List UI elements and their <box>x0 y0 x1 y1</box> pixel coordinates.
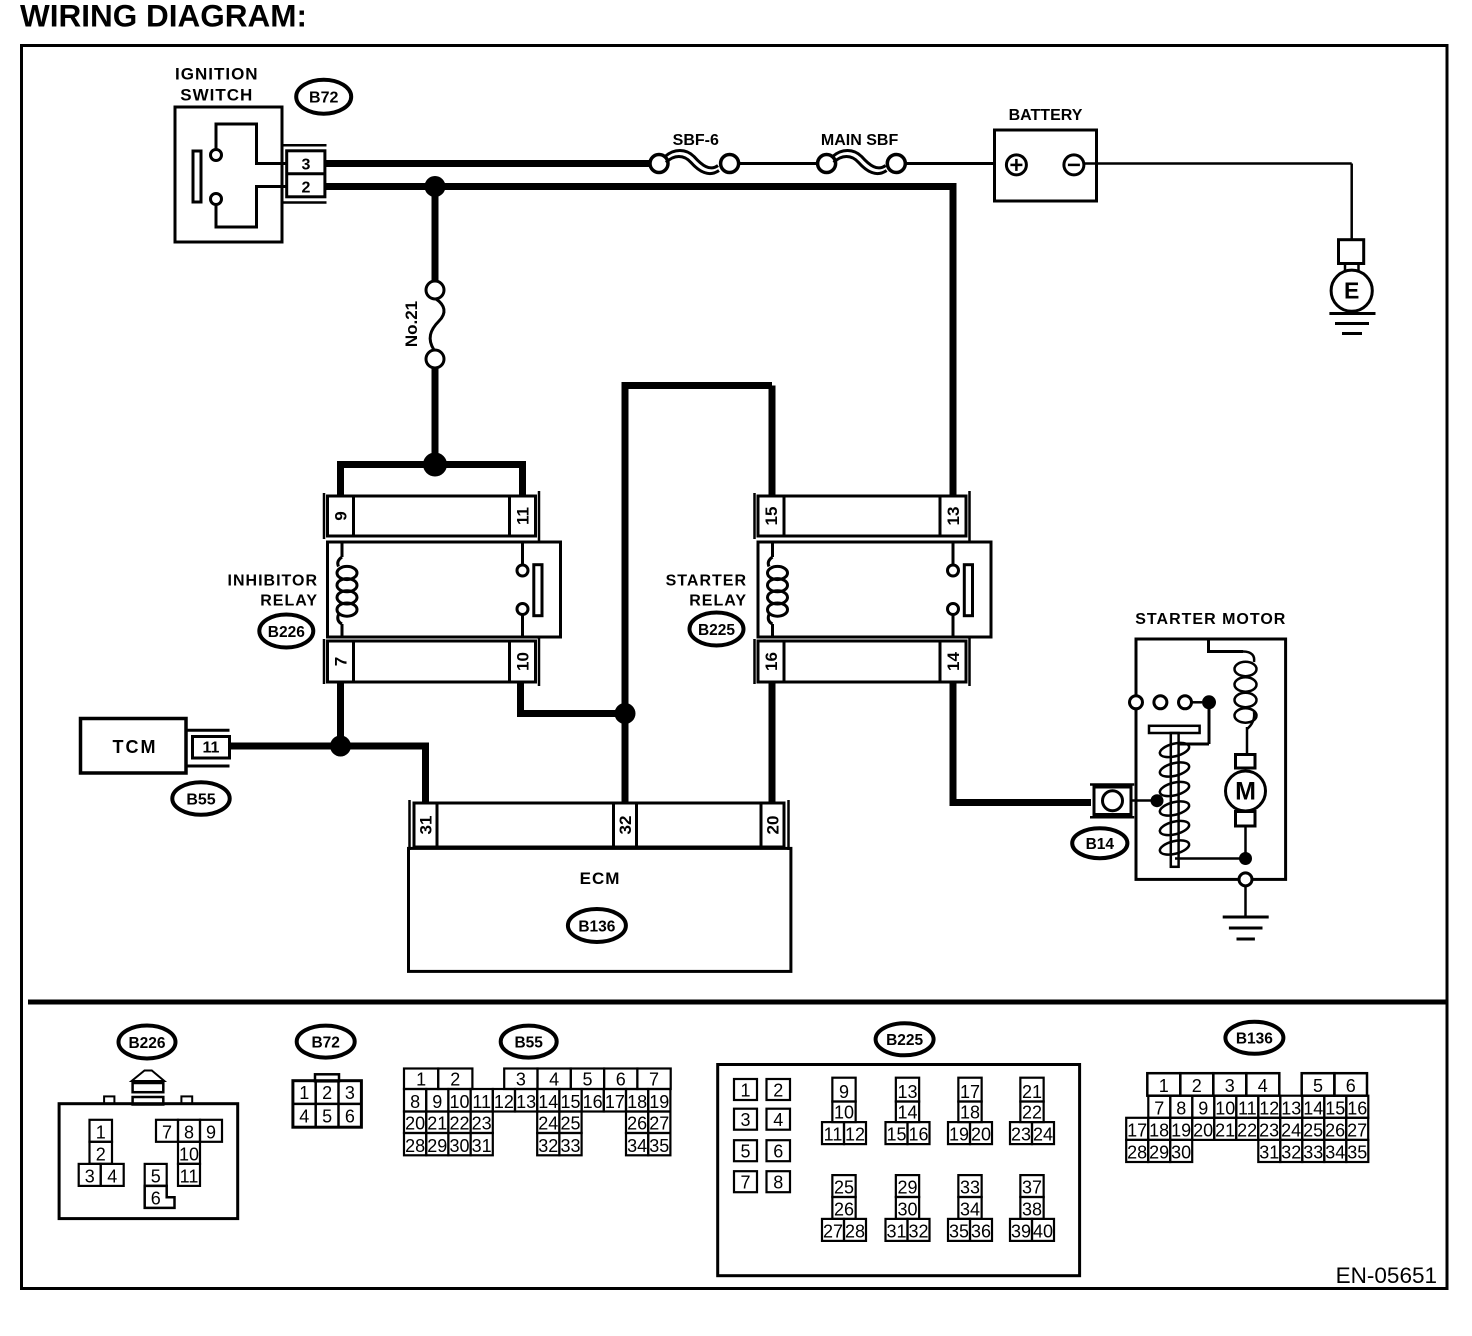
svg-text:26: 26 <box>627 1114 647 1134</box>
svg-text:13: 13 <box>944 507 963 526</box>
svg-text:B72: B72 <box>311 1034 339 1051</box>
svg-text:BATTERY: BATTERY <box>1009 107 1083 124</box>
svg-text:34: 34 <box>627 1136 647 1156</box>
svg-text:RELAY: RELAY <box>689 593 747 610</box>
svg-text:1: 1 <box>96 1122 106 1142</box>
svg-text:B14: B14 <box>1086 836 1115 853</box>
svg-text:23: 23 <box>472 1114 492 1134</box>
svg-text:4: 4 <box>107 1166 117 1186</box>
svg-text:3: 3 <box>1225 1076 1235 1096</box>
svg-text:9: 9 <box>839 1082 849 1102</box>
svg-text:B225: B225 <box>886 1032 923 1049</box>
svg-text:15: 15 <box>1325 1098 1345 1118</box>
svg-text:15: 15 <box>560 1092 580 1112</box>
svg-text:40: 40 <box>1033 1221 1053 1241</box>
svg-text:10: 10 <box>514 652 533 671</box>
svg-text:5: 5 <box>1313 1076 1323 1096</box>
svg-text:SBF-6: SBF-6 <box>673 132 719 149</box>
svg-text:33: 33 <box>960 1178 980 1198</box>
svg-text:21: 21 <box>427 1114 447 1134</box>
svg-text:20: 20 <box>764 816 783 835</box>
svg-text:21: 21 <box>1215 1120 1235 1140</box>
svg-text:20: 20 <box>1193 1120 1213 1140</box>
svg-text:11: 11 <box>472 1092 491 1112</box>
svg-text:3: 3 <box>740 1110 750 1130</box>
svg-text:11: 11 <box>180 1166 199 1186</box>
svg-text:25: 25 <box>560 1114 580 1134</box>
svg-text:10: 10 <box>449 1092 469 1112</box>
svg-text:6: 6 <box>616 1070 626 1090</box>
svg-text:No.21: No.21 <box>402 301 421 347</box>
svg-text:19: 19 <box>1171 1120 1191 1140</box>
svg-text:B55: B55 <box>186 791 215 808</box>
svg-text:STARTER MOTOR: STARTER MOTOR <box>1135 611 1286 628</box>
svg-text:B136: B136 <box>578 918 615 935</box>
svg-text:13: 13 <box>516 1092 536 1112</box>
svg-text:9: 9 <box>206 1122 216 1142</box>
svg-text:20: 20 <box>971 1125 991 1145</box>
svg-text:35: 35 <box>949 1221 969 1241</box>
svg-text:26: 26 <box>1325 1120 1345 1140</box>
svg-text:14: 14 <box>538 1092 558 1112</box>
svg-text:EN-05651: EN-05651 <box>1336 1263 1437 1288</box>
svg-text:13: 13 <box>897 1082 917 1102</box>
svg-text:16: 16 <box>1347 1098 1367 1118</box>
svg-text:B225: B225 <box>698 622 735 639</box>
svg-text:2: 2 <box>450 1070 460 1090</box>
svg-text:28: 28 <box>405 1136 425 1156</box>
svg-text:11: 11 <box>514 507 533 525</box>
svg-text:WIRING DIAGRAM:: WIRING DIAGRAM: <box>20 0 307 34</box>
svg-text:2: 2 <box>1192 1076 1202 1096</box>
svg-text:7: 7 <box>1154 1098 1164 1118</box>
svg-text:21: 21 <box>1022 1082 1042 1102</box>
svg-text:IGNITION: IGNITION <box>175 65 259 84</box>
svg-text:27: 27 <box>649 1114 669 1134</box>
svg-text:2: 2 <box>773 1081 783 1101</box>
svg-text:4: 4 <box>1258 1076 1268 1096</box>
svg-text:1: 1 <box>299 1083 309 1103</box>
svg-text:11: 11 <box>203 740 220 757</box>
svg-text:3: 3 <box>345 1083 355 1103</box>
svg-text:6: 6 <box>151 1188 161 1208</box>
svg-text:32: 32 <box>1281 1143 1301 1163</box>
svg-text:16: 16 <box>908 1125 928 1145</box>
svg-text:5: 5 <box>151 1166 161 1186</box>
svg-text:29: 29 <box>897 1178 917 1198</box>
svg-text:2: 2 <box>302 180 311 197</box>
svg-text:22: 22 <box>449 1114 469 1134</box>
svg-text:8: 8 <box>1176 1098 1186 1118</box>
svg-text:17: 17 <box>1127 1120 1147 1140</box>
svg-text:37: 37 <box>1022 1178 1042 1198</box>
svg-text:2: 2 <box>96 1144 106 1164</box>
svg-text:STARTER: STARTER <box>666 573 747 590</box>
svg-text:15: 15 <box>886 1125 906 1145</box>
svg-text:19: 19 <box>649 1092 669 1112</box>
svg-text:22: 22 <box>1022 1103 1042 1123</box>
svg-text:27: 27 <box>1347 1120 1367 1140</box>
svg-text:E: E <box>1344 278 1359 304</box>
svg-text:2: 2 <box>322 1083 332 1103</box>
svg-text:15: 15 <box>762 507 781 526</box>
svg-text:10: 10 <box>1215 1098 1235 1118</box>
svg-text:1: 1 <box>740 1081 750 1101</box>
svg-text:5: 5 <box>582 1070 592 1090</box>
svg-text:3: 3 <box>85 1166 95 1186</box>
svg-text:33: 33 <box>560 1136 580 1156</box>
svg-text:14: 14 <box>897 1103 917 1123</box>
svg-text:B72: B72 <box>309 90 338 107</box>
svg-text:7: 7 <box>162 1122 172 1142</box>
svg-text:8: 8 <box>410 1092 420 1112</box>
svg-text:B226: B226 <box>128 1035 165 1052</box>
svg-text:14: 14 <box>1303 1098 1323 1118</box>
svg-text:4: 4 <box>549 1070 559 1090</box>
svg-text:35: 35 <box>1347 1143 1367 1163</box>
svg-text:30: 30 <box>449 1136 469 1156</box>
svg-text:8: 8 <box>184 1122 194 1142</box>
svg-text:11: 11 <box>1238 1098 1257 1118</box>
svg-text:29: 29 <box>427 1136 447 1156</box>
svg-text:4: 4 <box>773 1110 783 1130</box>
svg-text:5: 5 <box>322 1107 332 1127</box>
svg-text:31: 31 <box>886 1221 906 1241</box>
svg-text:30: 30 <box>1171 1143 1191 1163</box>
svg-text:14: 14 <box>944 652 963 671</box>
svg-text:18: 18 <box>960 1103 980 1123</box>
svg-text:7: 7 <box>649 1070 659 1090</box>
svg-text:B55: B55 <box>514 1034 543 1051</box>
svg-text:12: 12 <box>494 1092 514 1112</box>
svg-text:10: 10 <box>179 1144 199 1164</box>
svg-text:1: 1 <box>1159 1076 1169 1096</box>
svg-text:29: 29 <box>1149 1143 1169 1163</box>
svg-text:23: 23 <box>1011 1125 1031 1145</box>
svg-text:16: 16 <box>583 1092 603 1112</box>
svg-text:32: 32 <box>616 816 635 835</box>
svg-text:RELAY: RELAY <box>260 593 318 610</box>
svg-text:5: 5 <box>740 1142 750 1162</box>
svg-text:24: 24 <box>1033 1125 1053 1145</box>
svg-text:17: 17 <box>605 1092 625 1112</box>
svg-text:3: 3 <box>302 157 311 174</box>
svg-text:27: 27 <box>823 1221 843 1241</box>
svg-text:28: 28 <box>845 1221 865 1241</box>
svg-text:26: 26 <box>834 1199 854 1219</box>
svg-text:9: 9 <box>432 1092 442 1112</box>
svg-text:13: 13 <box>1281 1098 1301 1118</box>
svg-text:18: 18 <box>1149 1120 1169 1140</box>
svg-text:31: 31 <box>417 816 436 835</box>
svg-text:INHIBITOR: INHIBITOR <box>228 573 318 590</box>
svg-text:7: 7 <box>332 657 351 666</box>
svg-text:24: 24 <box>1281 1120 1301 1140</box>
svg-text:4: 4 <box>299 1107 309 1127</box>
svg-text:6: 6 <box>345 1107 355 1127</box>
svg-text:25: 25 <box>1303 1120 1323 1140</box>
svg-text:1: 1 <box>416 1070 426 1090</box>
svg-text:32: 32 <box>908 1221 928 1241</box>
svg-text:8: 8 <box>773 1173 783 1193</box>
svg-text:6: 6 <box>1346 1076 1356 1096</box>
svg-text:33: 33 <box>1303 1143 1323 1163</box>
svg-text:SWITCH: SWITCH <box>180 86 253 105</box>
svg-text:25: 25 <box>834 1178 854 1198</box>
svg-text:31: 31 <box>472 1136 492 1156</box>
svg-text:10: 10 <box>834 1103 854 1123</box>
svg-text:12: 12 <box>845 1125 865 1145</box>
svg-text:12: 12 <box>1259 1098 1279 1118</box>
svg-text:16: 16 <box>762 652 781 671</box>
svg-text:35: 35 <box>649 1136 669 1156</box>
svg-text:24: 24 <box>538 1114 558 1134</box>
svg-text:M: M <box>1235 778 1256 806</box>
svg-text:11: 11 <box>824 1125 843 1145</box>
svg-text:B136: B136 <box>1236 1030 1273 1047</box>
svg-text:31: 31 <box>1259 1143 1279 1163</box>
svg-text:39: 39 <box>1011 1221 1031 1241</box>
svg-text:TCM: TCM <box>113 737 158 757</box>
svg-text:B226: B226 <box>268 624 305 641</box>
svg-text:22: 22 <box>1237 1120 1257 1140</box>
svg-text:38: 38 <box>1022 1199 1042 1219</box>
svg-text:28: 28 <box>1127 1143 1147 1163</box>
svg-text:6: 6 <box>773 1142 783 1162</box>
svg-text:3: 3 <box>516 1070 526 1090</box>
svg-text:34: 34 <box>1325 1143 1345 1163</box>
svg-text:MAIN SBF: MAIN SBF <box>821 132 899 149</box>
svg-text:30: 30 <box>897 1199 917 1219</box>
svg-text:32: 32 <box>538 1136 558 1156</box>
svg-text:34: 34 <box>960 1199 980 1219</box>
svg-text:19: 19 <box>949 1125 969 1145</box>
svg-text:23: 23 <box>1259 1120 1279 1140</box>
svg-text:9: 9 <box>1198 1098 1208 1118</box>
svg-text:20: 20 <box>405 1114 425 1134</box>
svg-text:18: 18 <box>627 1092 647 1112</box>
svg-text:17: 17 <box>960 1082 980 1102</box>
svg-text:ECM: ECM <box>580 869 621 888</box>
svg-text:9: 9 <box>332 511 351 520</box>
svg-text:7: 7 <box>740 1173 750 1193</box>
svg-text:36: 36 <box>971 1221 991 1241</box>
